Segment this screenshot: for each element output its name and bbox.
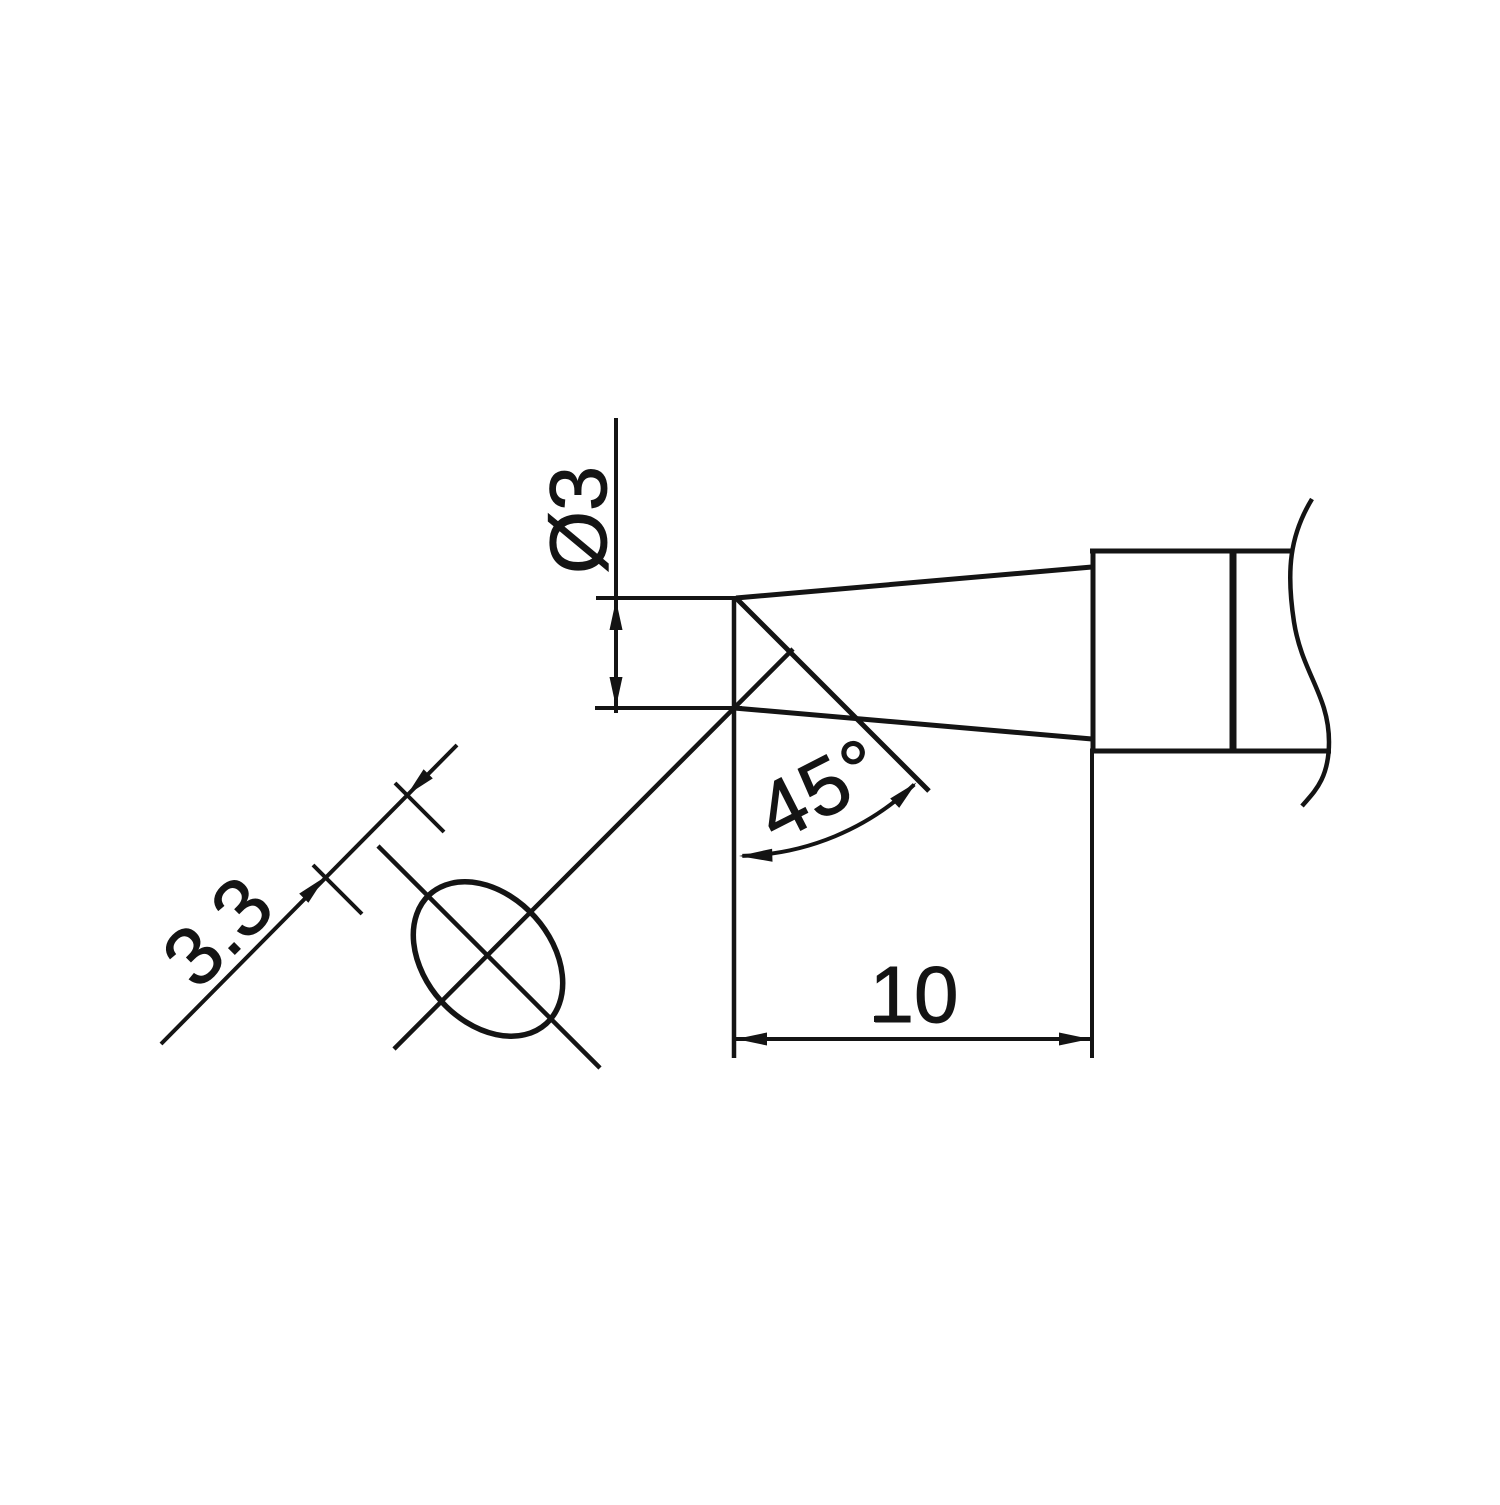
dimension 10 right extension line — [1090, 753, 1094, 1058]
dimension Ø3 arrow up — [610, 600, 623, 630]
ellipse face minor-axis line (NW-SE) — [378, 846, 600, 1068]
dimension 3.3 lower arrow (points up-right) — [299, 877, 325, 903]
svg-text:10: 10 — [870, 950, 959, 1039]
dimension Ø3 top extension line — [596, 596, 742, 600]
svg-text:Ø3: Ø3 — [534, 466, 624, 574]
dimension Ø3 leader vertical line — [614, 418, 618, 713]
dimension 10 right arrow — [1059, 1033, 1090, 1046]
angle 45 arc left arrow — [739, 849, 773, 862]
angle 45 arc right arrow — [890, 783, 916, 808]
dimension 10 line — [736, 1037, 1090, 1041]
ferrule inner joint line — [1230, 549, 1237, 753]
tip top cone edge — [736, 567, 1092, 598]
dimension 3.3 upper arrow (points down-left) — [407, 769, 433, 795]
dimension 10 left arrow — [736, 1033, 767, 1046]
ferrule top edge — [1090, 549, 1293, 554]
dimension 3.3 tick upper — [395, 783, 444, 832]
dimension 3.3 line — [161, 745, 457, 1044]
ferrule bottom edge — [1090, 749, 1331, 754]
dimension 3.3 tick lower — [313, 865, 362, 914]
tip 45-degree bevel edge — [736, 598, 929, 791]
dimension Ø3 bottom extension line — [595, 706, 742, 710]
dimension Ø3 arrow down — [610, 677, 623, 707]
shaft break wavy line — [1290, 499, 1329, 806]
label 10 serif foot of digit 1 — [874, 1016, 898, 1022]
tip bottom cone edge — [734, 708, 1092, 739]
ferrule left vertical edge — [1091, 549, 1096, 753]
angle 45 arc — [742, 785, 914, 856]
tip axis line through ellipse (lower-left diagonal) — [394, 649, 793, 1049]
tip left vertical edge + 10-dim left extension — [732, 598, 737, 1058]
ellipse tip face — [383, 852, 593, 1066]
